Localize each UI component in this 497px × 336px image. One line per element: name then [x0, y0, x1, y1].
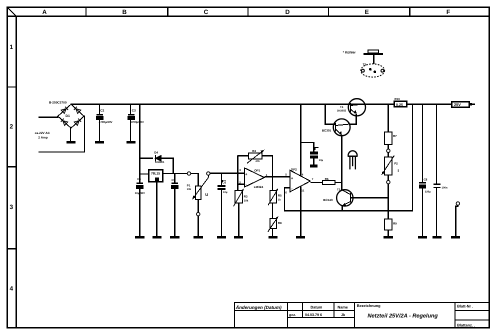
svg-text:R5: R5	[278, 193, 282, 197]
svg-text:0,25: 0,25	[396, 103, 403, 107]
svg-text:OP1: OP1	[254, 168, 260, 172]
svg-text:R6: R6	[325, 177, 329, 181]
ground below C9	[432, 236, 441, 239]
column tick E-F	[409, 7, 411, 16]
ground below C3	[126, 141, 135, 144]
ground below P1	[194, 236, 203, 239]
svg-text:I: I	[398, 168, 399, 173]
ground below C7	[310, 165, 318, 168]
wire feedback left drop	[237, 156, 239, 185]
svg-text:Blattanz. .: Blattanz. .	[457, 324, 475, 328]
wire raw rail drop to regulator	[139, 104, 141, 182]
svg-text:C4: C4	[137, 177, 141, 181]
column letters	[42, 9, 450, 16]
potentiometer P2 current adjust	[385, 157, 392, 175]
wire C3 stem	[130, 104, 132, 141]
svg-text:A: A	[42, 9, 47, 16]
wire OP2 minus input feedback	[285, 104, 413, 210]
svg-text:D1: D1	[66, 114, 70, 118]
svg-text:Blatt-Nr .: Blatt-Nr .	[457, 305, 473, 309]
svg-text:78L15: 78L15	[151, 172, 160, 176]
potentiometer P1	[196, 186, 201, 200]
connector pin circle (reg out)	[187, 172, 190, 175]
svg-text:25V: 25V	[454, 103, 461, 107]
row tick 1-2	[7, 86, 16, 88]
bridge rectifier D1	[58, 104, 84, 128]
wire P2 node down	[387, 184, 389, 220]
svg-text:Änderungen (Datum): Änderungen (Datum)	[235, 305, 282, 310]
capacitor C8	[419, 182, 426, 188]
capacitor C9	[434, 184, 441, 189]
regulator gnd pin mark	[155, 177, 159, 181]
svg-text:11: 11	[301, 188, 304, 192]
svg-text:U: U	[205, 192, 208, 197]
wire diode branch right	[158, 158, 173, 173]
wire main V+ bus	[71, 103, 394, 105]
capacitor C7	[310, 151, 318, 158]
P1 wiper arrow	[192, 175, 208, 200]
wire C7 to ground	[313, 159, 315, 165]
wire R3 to ground	[238, 203, 240, 236]
wire R9 to ground	[387, 230, 389, 236]
wire T3 base to node	[351, 197, 388, 199]
trimmer R8	[270, 218, 276, 228]
wire terminal to ground	[456, 205, 458, 236]
svg-text:100n: 100n	[442, 186, 448, 189]
op-amp OP1	[245, 168, 265, 187]
svg-text:P2: P2	[394, 162, 398, 166]
svg-text:OP2: OP2	[291, 168, 297, 172]
border frame corner diagonal	[7, 7, 16, 16]
svg-text:4700µ/40V: 4700µ/40V	[130, 120, 144, 124]
wire C5 stem	[174, 174, 176, 236]
trimmer R4	[249, 153, 262, 159]
svg-text:B-250C3700: B-250C3700	[49, 100, 67, 104]
svg-text:T5: T5	[363, 62, 367, 66]
svg-text:R8: R8	[278, 221, 282, 225]
resistor R7	[385, 132, 392, 144]
trimmer R5	[270, 191, 276, 204]
wire OP2 Vplus supply drop	[300, 104, 302, 175]
column tick C-D	[247, 7, 249, 16]
connector pin circle (P1 bottom)	[197, 212, 200, 215]
column tick A-B	[85, 7, 87, 16]
svg-text:04.03.79 6: 04.03.79 6	[305, 313, 322, 317]
svg-text:4700µ/40V: 4700µ/40V	[99, 120, 113, 124]
wire P1 bottom to ground	[197, 216, 199, 236]
svg-text:T3: T3	[337, 187, 341, 191]
svg-text:1N4001: 1N4001	[155, 161, 165, 164]
ground below C8	[418, 236, 427, 239]
connector pin circle (P2 top)	[387, 149, 390, 152]
svg-text:1: 1	[10, 44, 14, 51]
border frame inner top line	[7, 15, 489, 17]
wire R8 to ground	[272, 229, 274, 236]
svg-text:10k: 10k	[187, 188, 192, 191]
wire R7 to pin	[387, 144, 389, 149]
wire feedback top left	[238, 155, 249, 157]
ground below C6	[217, 236, 226, 239]
ground below R3	[234, 236, 243, 239]
ground below C5	[170, 236, 179, 239]
capacitor C3	[127, 114, 134, 120]
svg-text:C8: C8	[424, 177, 428, 181]
capacitor C4	[136, 183, 143, 189]
svg-text:R7: R7	[393, 134, 397, 138]
title block box	[234, 303, 489, 328]
row tick 3-4	[7, 248, 16, 250]
ground below C4	[135, 236, 144, 239]
capacitor C5	[171, 183, 178, 189]
ground below R9	[384, 236, 393, 239]
svg-text:2 Amp: 2 Amp	[38, 136, 47, 140]
svg-text:gez.: gez.	[289, 313, 296, 317]
wire C6 stem	[221, 173, 223, 236]
wire between chain resistors	[272, 203, 274, 218]
svg-text:R4: R4	[252, 149, 256, 153]
transistor T3 BC140	[337, 190, 353, 206]
svg-text:C3: C3	[132, 109, 136, 113]
border frame inner left line	[15, 16, 17, 327]
wire T2 emitter to T3	[341, 136, 343, 190]
wire P2 to pin	[387, 175, 389, 180]
wire T2 base drop from bus	[325, 104, 335, 124]
wire OP1 out to OP2	[264, 176, 290, 178]
wire OP1 minus input	[238, 183, 245, 185]
wire AC input lower	[39, 116, 85, 152]
svg-text:10µ: 10µ	[319, 159, 324, 162]
wire bus right of R10	[407, 103, 452, 105]
capacitor C2	[96, 114, 103, 120]
transistor T4	[348, 99, 365, 116]
wire P1 bottom	[197, 200, 199, 213]
svg-text:BC301: BC301	[322, 129, 332, 133]
svg-text:220µ: 220µ	[425, 190, 431, 193]
svg-text:F: F	[446, 9, 450, 16]
svg-text:BC140: BC140	[323, 198, 333, 202]
heatsink symbol	[364, 50, 384, 64]
wire feedback top right	[262, 156, 272, 177]
svg-text:P1: P1	[187, 183, 191, 187]
capacitor C6	[218, 185, 226, 190]
wire R7 column drop	[387, 104, 389, 132]
wire T2 collector to T4 emitter	[350, 114, 357, 124]
wire to P1 top	[191, 174, 199, 187]
resistor R9	[385, 219, 392, 230]
svg-text:2: 2	[10, 123, 14, 130]
svg-text:3: 3	[10, 204, 14, 211]
svg-text:Datum: Datum	[311, 305, 323, 309]
wire R6 to T3 collector line	[335, 182, 342, 184]
output minus terminal circle	[456, 202, 459, 205]
row numbers	[10, 44, 14, 293]
resistor R10 (current sense)	[394, 101, 407, 107]
connector pin circle (P2 bottom)	[387, 180, 390, 183]
svg-text:R10: R10	[395, 97, 401, 101]
svg-text:D4: D4	[154, 151, 158, 155]
wire diode branch left	[140, 157, 153, 159]
svg-text:C2: C2	[100, 109, 104, 113]
connector pin circle (P1 wiper)	[207, 172, 210, 175]
transistor package TO-92 pictorial	[348, 151, 357, 170]
resistor R3	[235, 191, 242, 204]
row tick 2-3	[7, 166, 16, 168]
svg-text:D: D	[285, 9, 290, 16]
wire pin to P2	[387, 152, 389, 157]
op-amp OP2	[290, 170, 310, 192]
svg-text:R3: R3	[244, 194, 248, 198]
svg-text:E: E	[365, 9, 369, 16]
ground below bridge	[66, 141, 75, 144]
diode D4	[155, 155, 160, 162]
wire regulator ground stem	[156, 182, 158, 236]
svg-text:C6: C6	[222, 180, 226, 184]
wire regulator output	[163, 173, 188, 175]
wire C2 stem	[99, 104, 101, 141]
svg-text:LM324: LM324	[254, 185, 264, 189]
wire C8 stem	[422, 104, 424, 236]
wire OP2 out to R6	[310, 182, 322, 184]
svg-text:* Kühler: * Kühler	[343, 51, 357, 55]
title block texts	[235, 304, 475, 327]
svg-text:2N3055: 2N3055	[337, 110, 347, 113]
svg-text:C: C	[204, 9, 209, 16]
wire regulator input	[140, 173, 149, 175]
resistor R6	[323, 181, 336, 185]
svg-text:R9: R9	[393, 221, 397, 225]
wire OP2 Vminus to ground	[300, 187, 302, 236]
wire junction to divider chain	[272, 177, 274, 191]
transistor T5 TO-3 package pictorial	[361, 64, 385, 77]
svg-text:10µ: 10µ	[223, 191, 228, 194]
svg-text:Netzteil 25V/2A - Regelung: Netzteil 25V/2A - Regelung	[368, 313, 439, 320]
ground below regulator	[152, 236, 161, 239]
column tick B-C	[167, 7, 169, 16]
transistor T2	[333, 119, 350, 136]
wire C7 tap	[301, 143, 314, 152]
svg-text:47k: 47k	[255, 160, 260, 163]
wire wiper to OP1 plus input	[210, 172, 245, 174]
output flag 25V	[452, 102, 475, 108]
column tick D-E	[328, 7, 330, 16]
wire C9 stem	[436, 104, 438, 236]
wire OP1 minus to R3	[237, 184, 239, 190]
svg-text:Bezeichnung: Bezeichnung	[357, 304, 381, 308]
wire AC input upper	[39, 116, 58, 118]
wire bridge to ground	[70, 128, 72, 141]
svg-text:4: 4	[10, 285, 14, 292]
wire T3 emitter down	[341, 206, 343, 211]
svg-text:Name: Name	[338, 305, 348, 309]
ground below R8	[268, 236, 277, 239]
ground below C2	[95, 141, 104, 144]
voltage regulator IC1 78L15	[149, 170, 163, 182]
ground below terminal	[451, 236, 460, 239]
svg-text:10k: 10k	[244, 199, 249, 202]
ground below OP2	[296, 236, 305, 239]
svg-text:B: B	[122, 9, 127, 16]
svg-text:T4: T4	[340, 105, 344, 109]
svg-text:ca.22V AC: ca.22V AC	[35, 131, 51, 135]
wire C4 to ground	[139, 189, 141, 236]
